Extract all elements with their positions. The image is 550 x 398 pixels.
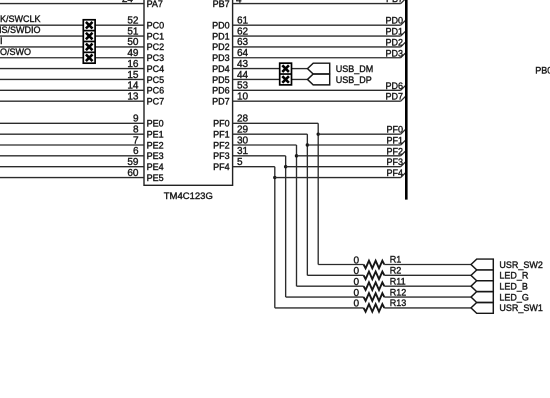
svg-text:USR_SW2: USR_SW2 — [499, 260, 543, 270]
svg-text:0: 0 — [353, 255, 359, 266]
svg-text:PC6: PC6 — [147, 86, 165, 96]
bus (vertical, port bus) — [405, 0, 408, 200]
jumper block USB (2 closed jumpers on PD4/PD5) — [280, 63, 292, 85]
svg-text:LED_R: LED_R — [499, 271, 529, 281]
svg-text:52: 52 — [127, 16, 139, 27]
wire PF1 net horizontal to resistor R2 — [307, 274, 363, 276]
svg-text:51: 51 — [127, 26, 139, 37]
svg-text:R1: R1 — [390, 255, 402, 265]
wire net PA7 (left) — [0, 3, 144, 5]
svg-text:PD6: PD6 — [385, 81, 403, 91]
wire PF2 vertical drop — [296, 145, 298, 286]
svg-text:PC5: PC5 — [147, 75, 165, 85]
svg-text:PC1: PC1 — [147, 31, 165, 41]
wire PF1 vertical drop — [306, 134, 308, 275]
svg-text:TDO/SWO: TDO/SWO — [0, 47, 31, 57]
svg-text:PD7: PD7 — [212, 96, 230, 106]
off-page flag LED_R — [471, 270, 493, 281]
jumper block JTAG (4 closed jumpers on PC0-PC3) — [83, 20, 95, 63]
off-page flag LED_G — [471, 292, 493, 303]
op IC U1 TM4C123G body — [144, 0, 233, 185]
bus entry PB7 — [401, 0, 406, 4]
wire PF1 to bus — [307, 144, 400, 146]
svg-text:PC3: PC3 — [147, 53, 165, 63]
svg-text:15: 15 — [127, 70, 139, 81]
bus entry PD2 — [401, 42, 406, 47]
wire PF3 vertical drop — [285, 156, 287, 297]
svg-text:PD0: PD0 — [212, 21, 230, 31]
svg-text:PE2: PE2 — [147, 140, 164, 150]
wire net PC6 (left) — [0, 89, 144, 91]
resistor R1 — [364, 261, 385, 269]
junction PF3 — [284, 165, 287, 168]
svg-text:4: 4 — [236, 0, 242, 5]
svg-text:PF2: PF2 — [386, 146, 403, 156]
wire net PD4 to USB jumper — [233, 68, 280, 70]
svg-text:PD5: PD5 — [212, 75, 230, 85]
junction PF2 — [295, 154, 298, 157]
wire resistor R11 to flag — [384, 285, 471, 287]
wire PF3 to bus — [286, 166, 401, 168]
svg-text:PE1: PE1 — [147, 129, 164, 139]
wire net PC0 (left) — [0, 24, 144, 26]
wire net PC3 (left) — [0, 57, 144, 59]
wire PF4 to bus — [275, 177, 401, 179]
off-page flag USR_SW1 — [471, 302, 493, 313]
svg-text:PF3: PF3 — [386, 157, 403, 167]
wire net PD7 (right, to bus) — [233, 100, 401, 102]
svg-text:9: 9 — [133, 114, 139, 125]
resistor R11 — [364, 282, 385, 290]
off-page flag LED_B — [471, 281, 493, 292]
wire net PD1 (right, to bus) — [233, 35, 401, 37]
svg-text:PE0: PE0 — [147, 119, 164, 129]
svg-text:PD7: PD7 — [385, 92, 403, 102]
bus entry PF1 — [401, 140, 406, 145]
wire net PE3 (left) — [0, 155, 144, 157]
wire net PF0 from pin — [233, 122, 319, 124]
svg-text:6: 6 — [133, 146, 139, 157]
wire PF0 to bus — [318, 133, 401, 135]
junction PF4 — [273, 176, 276, 179]
svg-text:PD4: PD4 — [212, 64, 230, 74]
wire PF0 vertical drop — [317, 123, 319, 264]
svg-text:PF0: PF0 — [386, 125, 403, 135]
wire net PD2 (right, to bus) — [233, 46, 401, 48]
svg-text:USB_DM: USB_DM — [336, 64, 374, 74]
svg-text:PE5: PE5 — [147, 173, 164, 183]
svg-text:PD6: PD6 — [212, 86, 230, 96]
bus entry PF2 — [401, 151, 406, 156]
wire net PD5 to USB jumper — [233, 78, 280, 80]
svg-text:PB0: PB0 — [535, 66, 550, 76]
bus entry PD3 — [401, 53, 406, 58]
svg-text:PD2: PD2 — [212, 42, 230, 52]
svg-text:TCK/SWCLK: TCK/SWCLK — [0, 14, 41, 24]
svg-text:0: 0 — [353, 277, 359, 288]
junction PF1 — [306, 143, 309, 146]
wire net PD6 (right, to bus) — [233, 89, 401, 91]
svg-text:PF3: PF3 — [213, 151, 230, 161]
svg-text:PD1: PD1 — [385, 27, 403, 37]
wire PF2 to bus — [297, 155, 401, 157]
svg-text:PF1: PF1 — [386, 136, 403, 146]
svg-text:USB_DP: USB_DP — [336, 75, 372, 85]
svg-text:PD3: PD3 — [212, 53, 230, 63]
svg-text:60: 60 — [127, 168, 139, 179]
svg-text:PD2: PD2 — [385, 37, 403, 47]
svg-text:PD0: PD0 — [385, 16, 403, 26]
svg-text:PF4: PF4 — [386, 168, 403, 178]
svg-text:PF4: PF4 — [213, 162, 230, 172]
svg-text:USR_SW1: USR_SW1 — [499, 303, 543, 313]
svg-text:LED_B: LED_B — [499, 282, 528, 292]
wire net PD3 (right, to bus) — [233, 57, 401, 59]
svg-text:8: 8 — [133, 124, 139, 135]
svg-text:0: 0 — [353, 299, 359, 310]
wire net PC5 (left) — [0, 78, 144, 80]
svg-text:PA7: PA7 — [147, 0, 163, 9]
wire net PE2 (left) — [0, 144, 144, 146]
svg-text:0: 0 — [353, 266, 359, 277]
wire USB jumper to flag — [292, 68, 308, 70]
svg-text:13: 13 — [127, 91, 139, 102]
wire net PC1 (left) — [0, 35, 144, 37]
wire resistor R12 to flag — [384, 296, 471, 298]
svg-text:R11: R11 — [390, 276, 406, 286]
svg-text:PC4: PC4 — [147, 64, 165, 74]
wire net PC7 (left) — [0, 100, 144, 102]
bus entry PF4 — [401, 173, 406, 178]
svg-text:TMS/SWDIO: TMS/SWDIO — [0, 25, 41, 35]
svg-text:59: 59 — [127, 157, 139, 168]
resistor R13 — [364, 304, 385, 312]
svg-text:TM4C123G: TM4C123G — [164, 191, 213, 202]
svg-text:0: 0 — [353, 288, 359, 299]
svg-text:7: 7 — [133, 135, 139, 146]
svg-text:PF1: PF1 — [213, 129, 230, 139]
wire PF4 net horizontal to resistor R13 — [275, 307, 364, 309]
svg-text:PB7: PB7 — [386, 0, 403, 4]
bus entry PD0 — [401, 21, 406, 26]
bus entry PD7 — [401, 97, 406, 102]
svg-text:PD3: PD3 — [385, 48, 403, 58]
svg-text:PC0: PC0 — [147, 21, 165, 31]
wire net PE4 (left) — [0, 166, 144, 168]
svg-text:PF0: PF0 — [213, 119, 230, 129]
wire net PF3 from pin — [233, 155, 286, 157]
svg-text:50: 50 — [127, 37, 139, 48]
svg-text:R13: R13 — [390, 298, 407, 308]
svg-text:49: 49 — [127, 48, 139, 59]
bus entry PD1 — [401, 31, 406, 36]
resistor R12 — [364, 293, 385, 301]
svg-text:PE3: PE3 — [147, 151, 164, 161]
wire resistor R13 to flag — [384, 307, 471, 309]
wire net PE1 (left) — [0, 133, 144, 135]
svg-text:24: 24 — [122, 0, 134, 5]
resistor R2 — [364, 272, 385, 280]
svg-text:PC2: PC2 — [147, 42, 165, 52]
wire net PF1 from pin — [233, 133, 308, 135]
wire net PC4 (left) — [0, 68, 144, 70]
svg-text:PE4: PE4 — [147, 162, 164, 172]
bus entry PF3 — [401, 162, 406, 167]
off-page flag USR_SW2 — [471, 259, 493, 270]
svg-text:R12: R12 — [390, 287, 407, 297]
svg-text:PD1: PD1 — [212, 31, 230, 41]
bus entry PD6 — [401, 86, 406, 91]
wire PF3 net horizontal to resistor R12 — [286, 296, 364, 298]
svg-text:PC7: PC7 — [147, 96, 165, 106]
svg-text:14: 14 — [127, 81, 139, 92]
wire net PB7 (right, to bus) — [233, 3, 401, 5]
wire net PE5 (left) — [0, 177, 144, 179]
wire net PE0 (left) — [0, 122, 144, 124]
svg-text:LED_G: LED_G — [499, 292, 529, 302]
svg-text:16: 16 — [127, 59, 139, 70]
off-page flag USB_DM — [308, 63, 330, 74]
svg-text:R2: R2 — [390, 266, 402, 276]
wire net PF4 from pin — [233, 166, 275, 168]
wire PF4 vertical drop — [274, 167, 276, 308]
wire resistor R1 to flag — [384, 264, 471, 266]
wire USB jumper to flag — [292, 78, 308, 80]
wire net PD0 (right, to bus) — [233, 24, 401, 26]
svg-text:TDI: TDI — [0, 36, 3, 46]
bus entry PF0 — [401, 130, 406, 135]
svg-text:PF2: PF2 — [213, 140, 230, 150]
off-page flag USB_DP — [308, 74, 330, 85]
wire PF2 net horizontal to resistor R11 — [297, 285, 364, 287]
wire net PF2 from pin — [233, 144, 297, 146]
junction PF0 — [317, 132, 320, 135]
wire PF0 net horizontal to resistor R1 — [318, 264, 363, 266]
wire resistor R2 to flag — [384, 274, 471, 276]
svg-text:PB7: PB7 — [213, 0, 230, 9]
wire net PC2 (left) — [0, 46, 144, 48]
